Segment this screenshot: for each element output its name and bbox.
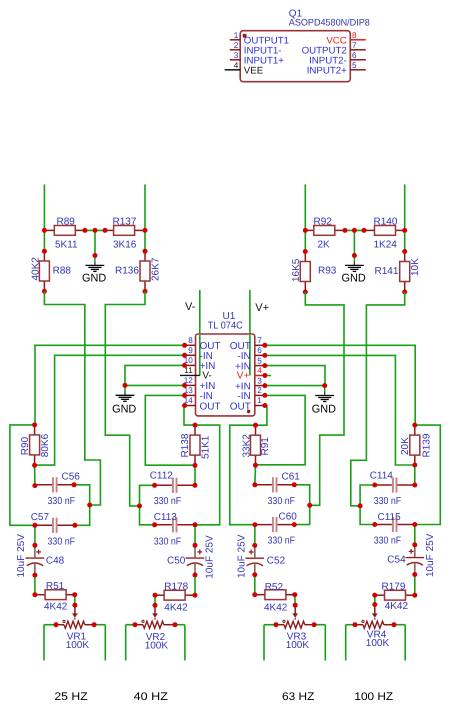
resistor R136 26K7 xyxy=(144,251,146,261)
wire C48 bottom to R51 left xyxy=(34,575,36,595)
svg-text:2: 2 xyxy=(257,386,262,395)
svg-text:3: 3 xyxy=(234,51,239,60)
wire right-network left vertical xyxy=(304,184,306,251)
wire U1 pin5 to right GND xyxy=(264,366,325,386)
svg-text:4K42: 4K42 xyxy=(264,603,288,614)
junction dots band4 xyxy=(412,423,417,428)
svg-text:10K: 10K xyxy=(410,258,421,276)
svg-text:7: 7 xyxy=(352,41,357,50)
svg-text:16K5: 16K5 xyxy=(291,258,302,282)
IC U1 origin dot xyxy=(247,410,250,413)
junction dots U1 left pins xyxy=(182,343,187,348)
IC Q1 pin 3 (INPUT1+) xyxy=(230,59,240,61)
wire V+ inside U1 xyxy=(249,335,251,376)
svg-text:10uF 25V: 10uF 25V xyxy=(237,534,248,578)
svg-text:7: 7 xyxy=(257,336,262,345)
wire R178 left to VR2 wiper xyxy=(154,595,156,605)
wire R179 left to VR4 wiper xyxy=(374,595,376,604)
svg-text:63 HZ: 63 HZ xyxy=(282,691,315,703)
svg-text:R90: R90 xyxy=(20,436,31,455)
svg-text:C113: C113 xyxy=(154,512,178,523)
svg-text:V-: V- xyxy=(185,301,196,313)
wire U1 pin7 to R139 top xyxy=(264,345,415,425)
resistor R91 33K2 xyxy=(255,425,257,435)
wire band4 left vertical C114-C115 xyxy=(360,485,375,525)
svg-text:5: 5 xyxy=(352,61,357,70)
svg-text:4K42: 4K42 xyxy=(44,601,68,612)
wire R93 net down to band3 caps xyxy=(305,292,344,505)
svg-text:10uF 25V: 10uF 25V xyxy=(425,533,436,577)
wire U1 pin8 to R90 top xyxy=(35,345,186,425)
wire R90 bottom to C56 left xyxy=(34,465,36,485)
IC U1 pin 6 (-IN) right xyxy=(255,354,265,356)
resistor R52 4K42 xyxy=(255,594,265,596)
IC U1 pin 3 (+IN) right xyxy=(255,385,265,387)
svg-text:5: 5 xyxy=(257,356,262,365)
svg-text:R137: R137 xyxy=(113,217,137,228)
wire right-network middle segment xyxy=(342,229,367,231)
svg-text:10uF 25V: 10uF 25V xyxy=(16,534,27,578)
potentiometer VR1 100K xyxy=(64,621,85,628)
svg-text:R138: R138 xyxy=(180,433,191,457)
svg-text:100K: 100K xyxy=(366,638,390,649)
wire R91 top to C60 left xyxy=(230,425,256,525)
IC Q1 pin 5 (INPUT2+) xyxy=(350,69,366,71)
wire R51 right to VR1 wiper xyxy=(74,595,76,606)
svg-text:VEE: VEE xyxy=(244,65,264,76)
ground symbol left-network GND xyxy=(94,256,96,262)
IC Q1 pin 6 (INPUT2-) xyxy=(350,59,366,61)
capacitor C113 330nF xyxy=(155,524,172,526)
IC Q1 pin-1 marker dot xyxy=(243,34,247,38)
op-amp U1 TL074C outline xyxy=(196,334,255,416)
potentiometer VR4 100K xyxy=(363,621,384,628)
IC Q1 pin 8 (VCC) xyxy=(350,39,366,41)
junction dots band3 xyxy=(253,423,258,428)
wire V+ supply vertical xyxy=(249,290,251,376)
svg-text:4K42: 4K42 xyxy=(385,601,409,612)
wire U1 pin2 to R91 bottom xyxy=(256,395,306,464)
wire R90 top elbow to C57 left xyxy=(10,425,35,525)
junction dots left-network xyxy=(42,228,47,233)
svg-text:C60: C60 xyxy=(279,511,298,522)
svg-text:330 nF: 330 nF xyxy=(48,536,76,547)
svg-text:3: 3 xyxy=(257,376,262,385)
svg-text:25 HZ: 25 HZ xyxy=(54,691,88,703)
svg-text:330 nF: 330 nF xyxy=(48,496,76,507)
capacitor C114 330nF xyxy=(375,484,392,486)
wire R88 net down to band1 caps xyxy=(44,291,100,505)
wire U1 pin4 stub xyxy=(264,375,271,377)
svg-text:5K11: 5K11 xyxy=(55,239,78,250)
wire V- inside U1 xyxy=(199,335,201,375)
junction dots band2 xyxy=(193,423,198,428)
svg-text:TL 074C: TL 074C xyxy=(208,321,243,332)
svg-text:GND: GND xyxy=(82,273,106,285)
wire R138 top to C113 right xyxy=(195,425,220,525)
svg-text:V+: V+ xyxy=(255,302,269,314)
svg-text:51K1: 51K1 xyxy=(200,435,211,459)
capacitor C57 330nF xyxy=(35,524,52,526)
wire R91 bottom to C61 left xyxy=(254,465,257,485)
svg-text:R93: R93 xyxy=(318,265,337,276)
IC U1 pin 1 (OUT) right xyxy=(255,405,265,407)
potentiometer VR2 100K xyxy=(143,621,164,628)
svg-text:R91: R91 xyxy=(260,437,271,456)
svg-text:80K6: 80K6 xyxy=(40,433,51,457)
svg-text:C48: C48 xyxy=(46,556,65,567)
svg-text:9: 9 xyxy=(188,346,193,355)
svg-text:GND: GND xyxy=(312,404,336,416)
IC Q1 pin 1 (OUTPUT1) xyxy=(230,39,240,41)
IC U1 pin 8 (OUT) left xyxy=(186,344,196,346)
svg-text:330 nF: 330 nF xyxy=(268,536,296,547)
junction dots band1 xyxy=(32,422,37,427)
svg-text:2: 2 xyxy=(234,41,239,50)
svg-text:C57: C57 xyxy=(31,512,50,523)
wire C52 bottom to R52 left xyxy=(254,575,256,595)
svg-text:C52: C52 xyxy=(267,555,286,566)
svg-text:100 HZ: 100 HZ xyxy=(354,691,393,703)
wire left-network gnd tap xyxy=(94,230,96,255)
IC U1 pin 11 (V-) left xyxy=(180,374,200,376)
wire R136 net down to band2 caps xyxy=(105,291,145,506)
svg-text:100K: 100K xyxy=(66,640,90,651)
wire left-network right vertical xyxy=(144,184,146,251)
IC U1 pin 12 (+IN) left xyxy=(186,384,196,386)
wire U1 pin9 to R90 bottom xyxy=(35,355,186,465)
svg-text:20K: 20K xyxy=(400,437,411,455)
capacitor C112 330nF xyxy=(155,484,172,486)
wire U1 pin1 to R91 top xyxy=(256,406,267,426)
resistor R92 2K xyxy=(305,229,313,231)
ground symbol U1 left GND xyxy=(124,385,126,391)
ground symbol U1 right GND xyxy=(324,386,326,392)
resistor R93 16K5 xyxy=(304,252,306,262)
wire right-network gnd tap xyxy=(353,230,355,255)
svg-text:1: 1 xyxy=(257,396,262,405)
svg-text:8: 8 xyxy=(188,336,193,345)
svg-text:R52: R52 xyxy=(265,582,284,593)
svg-text:C61: C61 xyxy=(282,472,301,483)
IC U1 pin 2 (-IN) right xyxy=(255,394,265,396)
wire right-network right vertical xyxy=(404,184,406,251)
svg-text:C112: C112 xyxy=(150,471,174,482)
svg-text:R136: R136 xyxy=(115,265,139,276)
svg-text:1: 1 xyxy=(234,31,239,40)
IC Q1 pin 7 (OUTPUT2) xyxy=(350,49,366,51)
svg-text:C56: C56 xyxy=(62,472,81,483)
capacitor C48 10uF 25V electrolytic xyxy=(34,545,36,557)
resistor R89 5K11 xyxy=(44,229,54,231)
resistor R178 4K42 xyxy=(155,594,164,596)
wire C54 bottom to R179 right xyxy=(414,575,416,596)
resistor R137 3K16 xyxy=(105,229,114,231)
svg-text:OUT: OUT xyxy=(230,401,251,412)
svg-text:40K2: 40K2 xyxy=(30,257,41,281)
svg-text:GND: GND xyxy=(342,273,366,285)
svg-text:OUT: OUT xyxy=(200,401,221,412)
capacitor C50 10uF 25V electrolytic xyxy=(194,545,196,557)
resistor R179 4K42 xyxy=(375,594,385,596)
wire C50 bottom to R178 right xyxy=(194,575,196,595)
svg-text:3K16: 3K16 xyxy=(113,239,137,250)
svg-text:V+: V+ xyxy=(237,371,250,382)
IC U1 pin 10 (+IN) left xyxy=(186,364,196,366)
svg-text:R141: R141 xyxy=(375,266,399,277)
svg-text:100K: 100K xyxy=(286,640,310,651)
wire U1 pin3 to right GND xyxy=(264,385,325,387)
svg-text:4: 4 xyxy=(257,366,262,375)
svg-text:26K7: 26K7 xyxy=(151,257,162,281)
svg-text:R92: R92 xyxy=(314,217,333,228)
capacitor C61 330nF xyxy=(255,484,272,486)
svg-text:100K: 100K xyxy=(145,641,169,652)
svg-text:C114: C114 xyxy=(370,471,394,482)
capacitor C56 330nF xyxy=(35,484,52,486)
wire U1 pin12 to left GND xyxy=(125,384,186,386)
svg-text:330 nF: 330 nF xyxy=(374,496,402,507)
IC U1 pin 13 (-IN) left xyxy=(186,394,196,396)
svg-text:C115: C115 xyxy=(378,512,402,523)
svg-text:2K: 2K xyxy=(318,239,331,250)
resistor R139 20K xyxy=(414,425,416,435)
svg-text:ASOPD4580N/DIP8: ASOPD4580N/DIP8 xyxy=(289,18,370,29)
IC U1 pin 5 (+IN) right xyxy=(255,365,265,367)
svg-text:R139: R139 xyxy=(422,433,433,457)
svg-text:R179: R179 xyxy=(382,581,406,592)
wire C56 right elbow down to C57 right xyxy=(74,485,90,526)
resistor R88 40K2 xyxy=(43,251,45,261)
svg-text:40 HZ: 40 HZ xyxy=(134,691,169,703)
svg-text:C54: C54 xyxy=(387,555,406,566)
svg-text:R89: R89 xyxy=(57,217,76,228)
svg-text:1K24: 1K24 xyxy=(374,239,398,250)
potentiometer VR3 100K xyxy=(284,621,305,628)
capacitor C54 10uF 25V electrolytic xyxy=(414,545,416,557)
svg-text:INPUT2+: INPUT2+ xyxy=(307,65,347,76)
svg-text:4: 4 xyxy=(234,61,239,70)
capacitor C60 330nF xyxy=(255,524,272,526)
wire R141 net down to band4 caps xyxy=(351,292,405,506)
IC Q1 pin 4 (VEE) xyxy=(225,69,241,71)
IC U1 pin 4 (V+) right xyxy=(255,375,265,377)
capacitor C52 10uF 25V electrolytic xyxy=(254,545,256,557)
svg-text:R178: R178 xyxy=(164,581,188,592)
svg-text:C50: C50 xyxy=(167,556,186,567)
svg-text:330 nF: 330 nF xyxy=(154,496,182,507)
wire U1 pin14 to R138 top xyxy=(184,406,195,426)
ground symbol right-network GND xyxy=(353,256,355,262)
capacitor C115 330nF xyxy=(375,524,392,526)
IC Q1 pin 2 (INPUT1-) xyxy=(230,49,240,51)
svg-text:33K2: 33K2 xyxy=(242,434,253,458)
resistor R51 4K42 xyxy=(35,594,45,596)
resistor R141 10K xyxy=(404,252,406,262)
wire U1 pin10 to left GND xyxy=(125,365,186,385)
svg-text:330 nF: 330 nF xyxy=(374,536,402,547)
svg-text:GND: GND xyxy=(112,403,136,415)
wire C57 left to C48 top xyxy=(34,525,36,545)
junction dots U1 right pins xyxy=(262,343,267,348)
svg-text:6: 6 xyxy=(352,51,357,60)
wire R138 bottom to C112 right xyxy=(194,465,196,485)
svg-text:8: 8 xyxy=(352,31,357,40)
svg-text:4K42: 4K42 xyxy=(164,603,188,614)
resistor R140 1K24 xyxy=(364,229,375,231)
wire left-network middle segment xyxy=(82,229,108,231)
svg-text:V-: V- xyxy=(202,370,211,381)
wire R52 right to VR3 wiper xyxy=(294,595,296,606)
wire U1 pin13 to R138 bottom xyxy=(145,395,195,465)
svg-text:R88: R88 xyxy=(53,265,72,276)
IC U1 pin 7 (OUT) right xyxy=(255,344,265,346)
wire C60 left to C52 top xyxy=(254,525,256,546)
svg-text:330 nF: 330 nF xyxy=(268,496,296,507)
wire R139 bottom to C114 right xyxy=(414,465,416,485)
resistor R138 51K1 xyxy=(194,425,196,435)
wire C115 right to C54 top xyxy=(414,525,416,545)
junction dots right-network xyxy=(303,228,308,233)
svg-text:R140: R140 xyxy=(374,217,398,228)
IC U1 pin 14 (OUT) left xyxy=(186,405,196,407)
svg-text:R51: R51 xyxy=(46,581,65,592)
resistor R90 80K6 xyxy=(34,425,36,435)
svg-text:6: 6 xyxy=(257,346,262,355)
wire U1 pin6 to R139 bottom xyxy=(264,355,414,465)
svg-text:10uF 25V: 10uF 25V xyxy=(204,535,215,579)
op-amp IC Q1 ASOPD4580N/DIP8 outline xyxy=(240,31,350,82)
wire R139 top to C115 right xyxy=(415,425,441,524)
wire left-network left vertical xyxy=(43,184,45,251)
wire C113 right to C50 top xyxy=(194,525,196,546)
wire V- supply vertical xyxy=(199,290,201,375)
wire band3 right vertical C61-C60 xyxy=(294,485,309,525)
svg-text:330 nF: 330 nF xyxy=(154,536,182,547)
IC U1 pin 9 (-IN) left xyxy=(186,354,196,356)
wire band2 left vertical C112-C113 xyxy=(140,485,155,525)
